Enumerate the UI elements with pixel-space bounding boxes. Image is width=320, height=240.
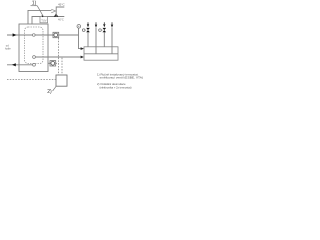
wire: boiler supply pipe into tank (y=35)	[7, 34, 79, 36]
wire: riser 2 from tank top, lower valve line	[32, 17, 64, 25]
wire: stub from tank wall to pump P2	[48, 62, 50, 64]
svg-text:40°C: 40°C	[58, 17, 64, 21]
down arrow on riser 4	[111, 22, 113, 27]
wire: supply drop into manifold box	[79, 35, 82, 49]
flow arrow out of tank (left-pointing)	[12, 63, 16, 66]
accumulator tank T1 outer shell	[19, 24, 48, 72]
svg-text:kotle: kotle	[5, 46, 11, 50]
down arrow above radiator valve 2	[103, 22, 105, 27]
svg-text:TUV: TUV	[41, 18, 47, 22]
wire: tank to manifold lower port (y=57)	[35, 56, 80, 58]
footnote line 3	[97, 82, 126, 86]
pump P1 on supply line	[53, 32, 59, 37]
footnote line 1	[97, 72, 139, 76]
svg-text:45°C: 45°C	[58, 3, 66, 7]
sensor box on riser line with label	[40, 17, 48, 23]
node: tank upper-bottom port circle	[33, 56, 36, 59]
node: tank bottom port circle	[33, 63, 36, 66]
svg-text:2): 2)	[47, 89, 52, 95]
mixing valve U1 bottom triangle (filled)	[54, 13, 59, 16]
control line (dashed) from boiler thermostat to controller	[7, 79, 56, 81]
control line (dashed) sensor to controller	[61, 58, 63, 75]
air vent V1	[77, 25, 81, 29]
flow arrow into manifold upper port	[81, 47, 84, 50]
control line (dashed) pump P1 to controller	[58, 38, 60, 75]
thermostatic valve TV2 body	[103, 28, 107, 32]
manifold box (radiator circuits)	[84, 47, 118, 60]
label: text below lower stub	[58, 17, 64, 21]
mixing valve U1 left triangle (open)	[51, 9, 56, 13]
wire: radiator riser 2 (plain)	[95, 28, 97, 54]
thermostat head circle of TV1	[82, 29, 86, 32]
node: tank mid port circle	[33, 34, 36, 37]
wire: riser 1 from tank top to mixing valve	[28, 10, 51, 24]
wire: riser to air vent	[78, 28, 80, 35]
control line (dashed) pump P2 stub	[56, 62, 59, 64]
wire: radiator riser 1 (valve branch)	[87, 32, 89, 47]
pump P2 at tank bottom	[50, 61, 56, 66]
callout label 2) with leader	[47, 86, 56, 95]
down arrow above radiator valve 1	[87, 22, 89, 27]
svg-text:směšovací ventil (ESBE, VTA): směšovací ventil (ESBE, VTA)	[100, 76, 144, 80]
wire: radiator riser 4 (plain)	[111, 28, 113, 54]
controller box U2 (ovladani akumulace)	[56, 75, 67, 86]
label: boiler text at left	[5, 44, 11, 51]
wire: radiator riser 3 (valve branch)	[103, 32, 105, 47]
wire: return pipe out of tank (y=64.8)	[7, 64, 33, 66]
flow arrow into manifold lower port	[81, 56, 84, 59]
callout label 1) with leader	[31, 1, 44, 17]
thermostat head circle of TV2	[99, 29, 103, 32]
down arrow on riser 2	[95, 22, 97, 27]
svg-text:(elektronika + 2x termostat): (elektronika + 2x termostat)	[100, 85, 132, 89]
footnote line 2	[100, 76, 144, 80]
thermostatic valve TV1 body	[86, 28, 90, 32]
wire: mixed output up and right (y=7)	[56, 7, 64, 17]
accumulator tank inner vessel (dashed)	[25, 27, 44, 64]
flow arrow into tank (right-pointing)	[13, 33, 17, 36]
footnote line 4	[100, 85, 132, 89]
label: temperature above output stub	[58, 3, 66, 7]
